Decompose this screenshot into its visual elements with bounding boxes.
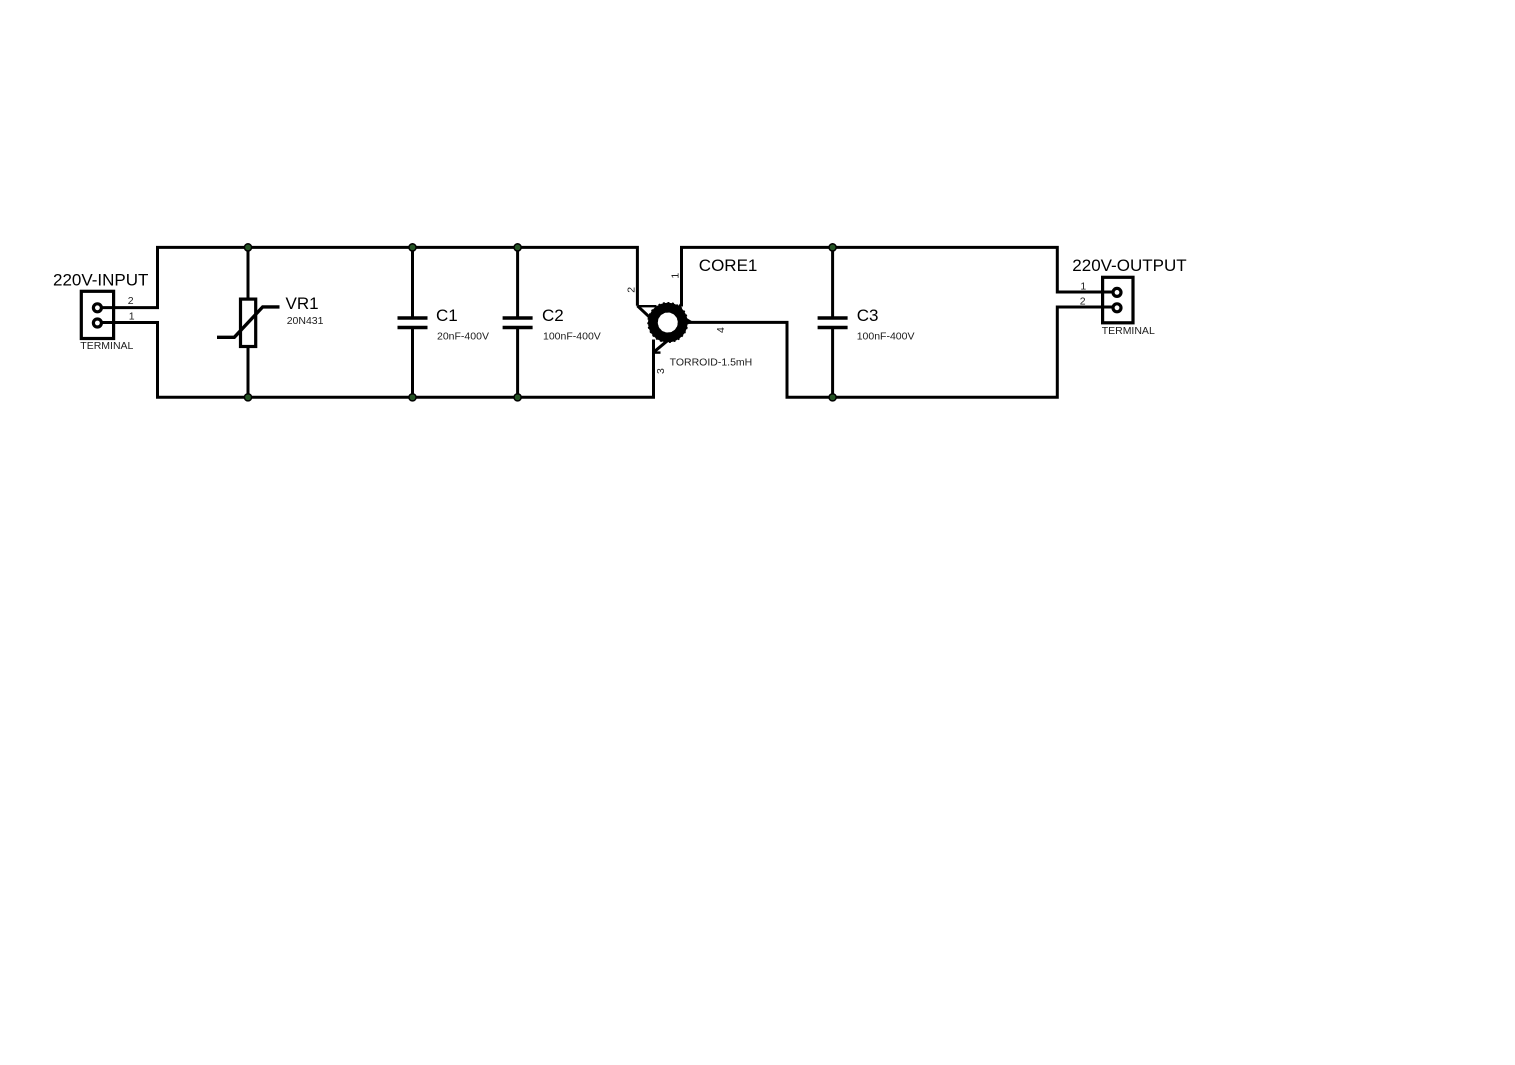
svg-text:4: 4 <box>715 327 727 333</box>
svg-text:TORROID-1.5mH: TORROID-1.5mH <box>670 356 753 368</box>
svg-text:CORE1: CORE1 <box>699 256 758 275</box>
svg-text:100nF-400V: 100nF-400V <box>543 331 601 343</box>
svg-text:1: 1 <box>670 273 682 279</box>
svg-text:C1: C1 <box>436 306 458 325</box>
svg-text:220V-OUTPUT: 220V-OUTPUT <box>1072 256 1186 275</box>
svg-text:2: 2 <box>625 287 637 293</box>
svg-text:2: 2 <box>128 295 134 307</box>
svg-text:1: 1 <box>129 310 135 322</box>
svg-text:C3: C3 <box>857 306 879 325</box>
svg-text:VR1: VR1 <box>286 294 319 313</box>
svg-text:TERMINAL: TERMINAL <box>80 340 133 352</box>
svg-text:2: 2 <box>1080 296 1086 308</box>
svg-text:100nF-400V: 100nF-400V <box>857 331 915 343</box>
svg-text:C2: C2 <box>542 306 564 325</box>
svg-text:20nF-400V: 20nF-400V <box>437 331 489 343</box>
svg-text:TERMINAL: TERMINAL <box>1102 325 1155 337</box>
svg-text:1: 1 <box>1080 281 1086 293</box>
svg-text:20N431: 20N431 <box>287 315 324 327</box>
svg-text:3: 3 <box>655 368 667 374</box>
svg-text:220V-INPUT: 220V-INPUT <box>53 271 148 290</box>
